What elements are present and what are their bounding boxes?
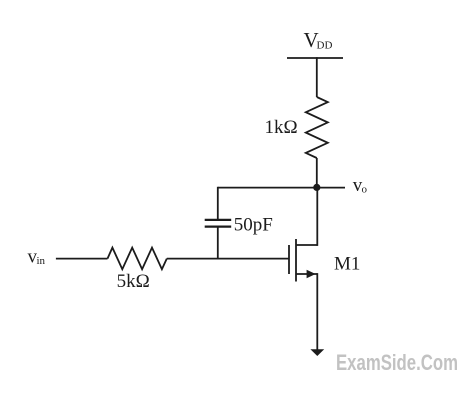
svg-text:1kΩ: 1kΩ (265, 117, 298, 138)
svg-text:o: o (362, 184, 368, 196)
svg-text:M1: M1 (334, 254, 360, 275)
svg-text:5kΩ: 5kΩ (117, 271, 150, 292)
svg-text:ExamSide.Com: ExamSide.Com (336, 350, 458, 375)
svg-text:50pF: 50pF (234, 214, 273, 235)
svg-text:DD: DD (317, 40, 333, 52)
svg-text:in: in (37, 255, 46, 267)
